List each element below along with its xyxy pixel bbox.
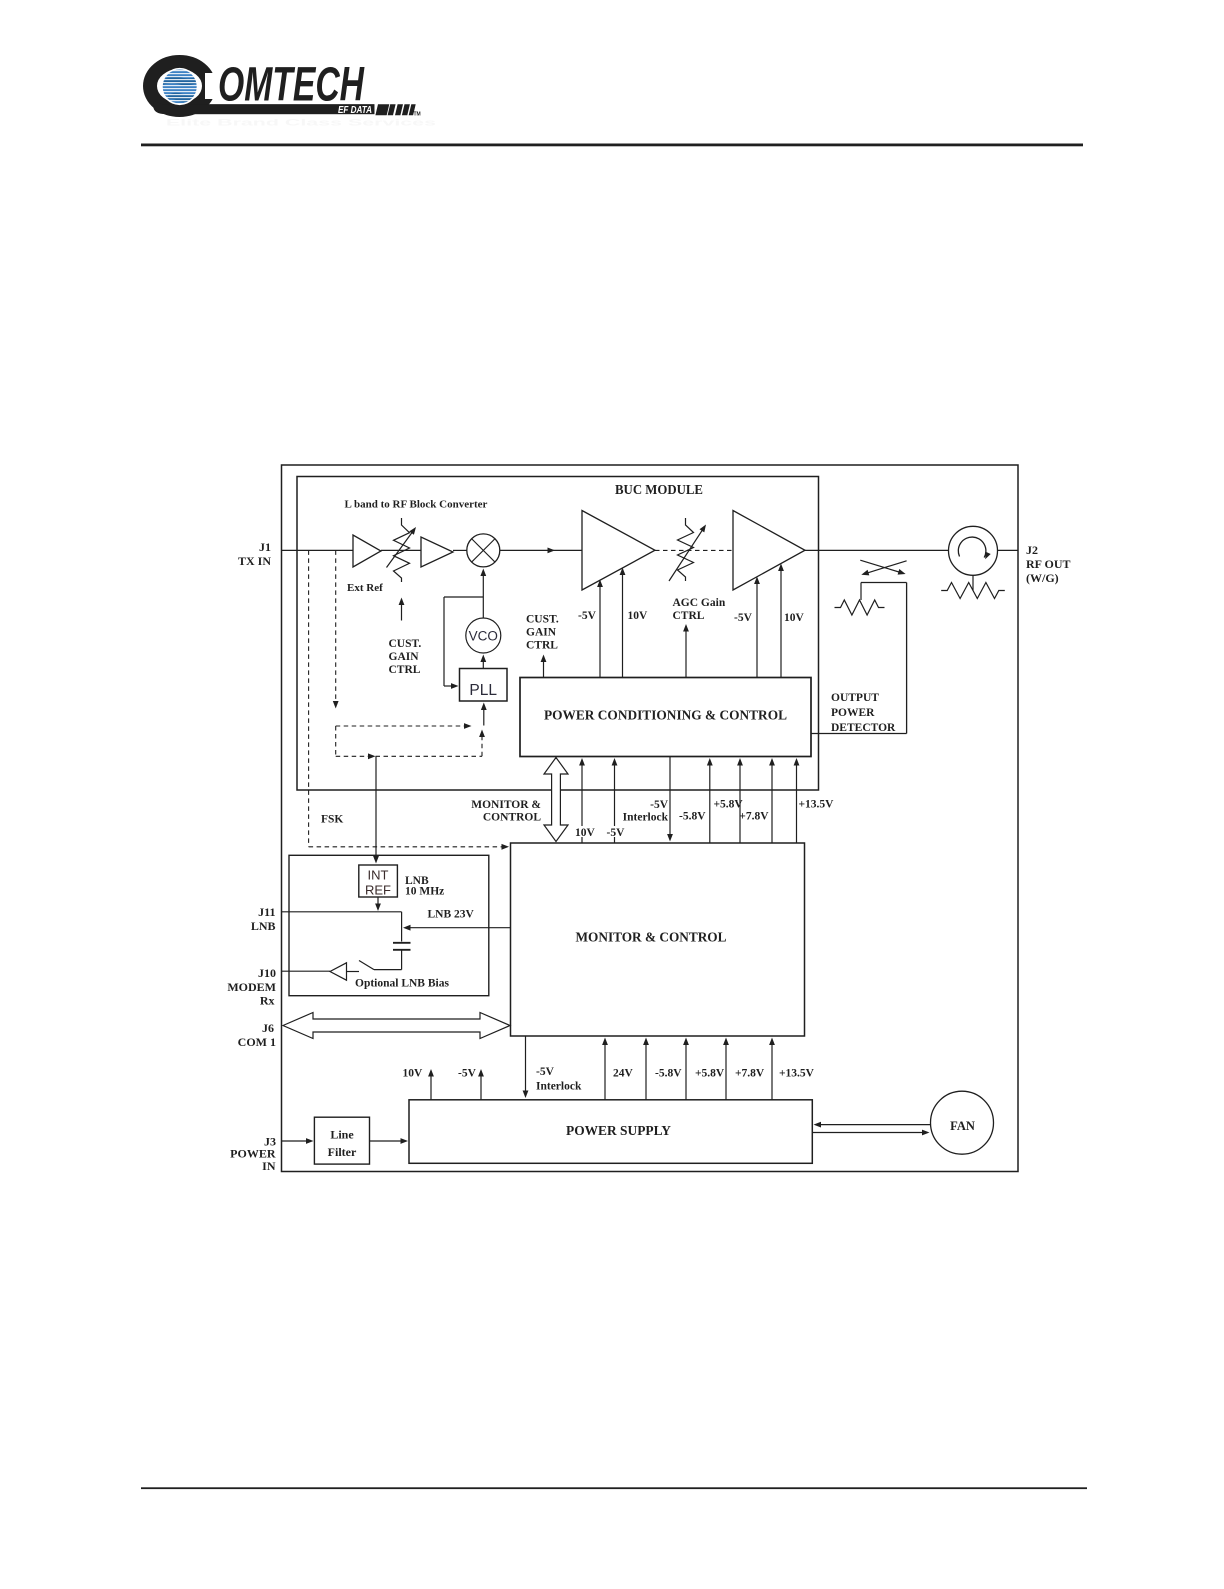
POWER SUPPLY box — [409, 1100, 812, 1164]
wire: mixer to amp A3 with arrow — [500, 549, 549, 551]
arrow: -5V to A4 — [756, 583, 758, 678]
svg-text:J6: J6 — [262, 1021, 274, 1035]
svg-text:LNB 23V: LNB 23V — [428, 909, 475, 921]
amplifier A4 — [733, 511, 805, 591]
-5V interlock arrow down — [669, 757, 671, 836]
wire: reference into PLL from below — [483, 709, 485, 726]
svg-text:-5V: -5V — [650, 799, 669, 811]
+13.5V — [771, 1044, 773, 1100]
svg-text:-5V: -5V — [536, 1066, 555, 1078]
svg-text:INT: INT — [368, 868, 389, 883]
svg-text:(W/G): (W/G) — [1026, 571, 1059, 585]
svg-text:Optional LNB Bias: Optional LNB Bias — [355, 978, 449, 990]
svg-text:Rx: Rx — [260, 994, 275, 1008]
svg-text:REF: REF — [365, 883, 391, 898]
VCO oscillator — [466, 618, 501, 653]
-5.8V arrow — [709, 764, 711, 843]
MONITOR & CONTROL box — [511, 843, 805, 1036]
svg-text:J10: J10 — [258, 966, 276, 980]
wire: VCO to mixer with arrow — [482, 575, 484, 619]
dashed path to PLL reference — [336, 725, 466, 727]
dashed FSK path from TX line to monitor&control — [308, 550, 310, 846]
wire: LNB 23V from M&C — [409, 927, 511, 929]
solid wire to INT REF — [375, 756, 377, 857]
svg-text:POWER SUPPLY: POWER SUPPLY — [566, 1123, 671, 1138]
outer chassis boundary — [282, 465, 1019, 1172]
buffer amp toward J10 — [330, 963, 347, 980]
output power detector outline — [861, 582, 907, 584]
svg-text:GAIN: GAIN — [526, 627, 557, 639]
arrow: 10V to A3 — [622, 574, 624, 678]
arrow: -5V to A3 — [599, 586, 601, 678]
svg-text:IN: IN — [262, 1159, 276, 1173]
POWER CONDITIONING & CONTROL box — [520, 678, 811, 757]
+5.8V arrow — [739, 764, 741, 843]
svg-text:L band to RF Block Converter: L band to RF Block Converter — [345, 499, 488, 511]
wire: A1 to A2 through attenuator — [381, 549, 421, 551]
svg-text:+7.8V: +7.8V — [735, 1068, 765, 1080]
svg-text:EF DATA: EF DATA — [338, 104, 372, 116]
svg-text:VCO: VCO — [469, 629, 498, 644]
svg-text:10V: 10V — [784, 612, 805, 624]
svg-text:-5V: -5V — [607, 827, 626, 839]
wire: line filter to PS — [370, 1140, 403, 1142]
svg-text:CONTROL: CONTROL — [483, 812, 541, 824]
-5V interlock into PS — [525, 1036, 527, 1092]
variable attenuator AT1 — [394, 518, 410, 582]
header rule — [141, 144, 1083, 147]
FAN circle — [931, 1091, 994, 1154]
+7.8V arrow — [771, 764, 773, 843]
svg-text:Filter: Filter — [328, 1145, 357, 1159]
svg-text:Elite Brand Class Services: Elite Brand Class Services — [166, 118, 436, 129]
svg-text:J11: J11 — [258, 905, 275, 919]
circulator CR1 — [949, 526, 998, 575]
svg-text:-5.8V: -5.8V — [679, 811, 706, 823]
svg-text:LNB: LNB — [251, 919, 276, 933]
hollow double arrow: J6 COM1 bus — [283, 1013, 510, 1039]
svg-text:CUST.: CUST. — [389, 638, 422, 650]
svg-text:+7.8V: +7.8V — [739, 811, 769, 823]
svg-text:PLL: PLL — [469, 682, 497, 699]
wire: A2 to mixer — [453, 549, 467, 551]
arrow: AGC gain ctrl out of PC&C — [685, 630, 687, 677]
svg-text:-5.8V: -5.8V — [655, 1068, 682, 1080]
wire: circulator to J2 RF OUT — [998, 549, 1019, 551]
mixer M1 — [467, 534, 500, 567]
svg-text:Ext Ref: Ext Ref — [347, 582, 383, 594]
svg-text:-5V: -5V — [578, 610, 597, 622]
svg-text:J1: J1 — [259, 540, 271, 554]
dashed wire: A3 to AGC attenuator to A4 — [655, 549, 733, 551]
amplifier A3 — [582, 511, 655, 591]
svg-text:-5V: -5V — [458, 1068, 477, 1080]
arrow: cust gain ctrl out of PC&C — [543, 661, 545, 678]
svg-text:COM 1: COM 1 — [238, 1035, 276, 1049]
svg-text:Interlock: Interlock — [536, 1081, 582, 1093]
Line Filter box — [314, 1117, 369, 1164]
svg-text:POWER CONDITIONING & CONTROL: POWER CONDITIONING & CONTROL — [544, 708, 787, 723]
svg-text:MODEM: MODEM — [227, 980, 276, 994]
arrow: INT REF to J11 line — [377, 897, 379, 905]
INT REF box — [359, 865, 398, 897]
svg-text:MONITOR & CONTROL: MONITOR & CONTROL — [576, 930, 727, 945]
wire: PLL to VCO arrow — [482, 661, 484, 669]
svg-text:POWER: POWER — [831, 707, 875, 719]
svg-text:BUC MODULE: BUC MODULE — [615, 482, 703, 497]
wire: J3 into line filter — [282, 1140, 308, 1142]
svg-text:+5.8V: +5.8V — [714, 799, 744, 811]
svg-text:10 MHz: 10 MHz — [405, 886, 444, 898]
svg-text:J2: J2 — [1026, 543, 1038, 557]
svg-text:AGC Gain: AGC Gain — [673, 597, 726, 609]
capacitor C1 — [393, 942, 411, 944]
-5.8V — [645, 1044, 647, 1100]
variable attenuator AT2 (AGC) — [678, 518, 694, 581]
svg-text:10V: 10V — [403, 1068, 424, 1080]
wire: J10 MODEM Rx — [282, 970, 331, 972]
svg-text:GAIN: GAIN — [389, 651, 420, 663]
amplifier A2 — [421, 537, 453, 567]
svg-text:10V: 10V — [575, 827, 596, 839]
svg-text:Interlock: Interlock — [623, 812, 669, 824]
svg-text:MONITOR &: MONITOR & — [471, 799, 541, 811]
LNB bias enclosure — [289, 855, 489, 995]
PLL box — [460, 669, 508, 702]
svg-text:OUTPUT: OUTPUT — [831, 692, 879, 704]
svg-text:TX IN: TX IN — [238, 554, 271, 568]
Comtech EF Data logo — [150, 59, 436, 129]
svg-text:+5.8V: +5.8V — [695, 1068, 725, 1080]
wires: PS to FAN — [820, 1124, 931, 1126]
10V arrow — [581, 764, 583, 843]
svg-text:Line: Line — [330, 1128, 354, 1142]
-5V from PS — [480, 1075, 482, 1100]
svg-text:CUST.: CUST. — [526, 614, 559, 626]
termination resistor under circulator — [972, 575, 974, 590]
+5.8V — [685, 1044, 687, 1100]
+13.5V arrow — [796, 764, 798, 843]
10V from PS — [430, 1075, 432, 1100]
svg-text:CTRL: CTRL — [389, 664, 421, 676]
detector resistor — [835, 600, 885, 615]
wire: J11 LNB line — [282, 911, 402, 913]
bias switch — [374, 969, 402, 971]
hollow double arrow: MONITOR & CONTROL bus — [544, 758, 568, 842]
svg-text:+13.5V: +13.5V — [779, 1068, 815, 1080]
svg-text:-5V: -5V — [734, 612, 753, 624]
svg-text:FSK: FSK — [321, 814, 343, 826]
svg-text:CTRL: CTRL — [673, 610, 705, 622]
svg-text:24V: 24V — [613, 1068, 634, 1080]
footer rule — [141, 1487, 1087, 1489]
svg-text:CTRL: CTRL — [526, 640, 558, 652]
wire: A4 to circulator — [805, 549, 949, 551]
24V — [604, 1044, 606, 1100]
labels for supply rails — [573, 826, 594, 837]
svg-text:+13.5V: +13.5V — [799, 799, 835, 811]
svg-text:FAN: FAN — [950, 1119, 975, 1133]
arrow: 10V to A4 — [780, 570, 782, 678]
+7.8V — [725, 1044, 727, 1100]
amplifier A1 — [353, 535, 381, 567]
CUST GAIN CTRL arrow for AT1 — [401, 604, 403, 621]
-5V arrow — [614, 764, 616, 843]
svg-text:10V: 10V — [628, 610, 649, 622]
wire: J1 TX IN into amp A1 — [282, 549, 354, 551]
dashed Ext Ref path down — [335, 550, 337, 702]
directional coupler crossed arrows — [860, 560, 900, 572]
feedback wire VCO line to PLL — [444, 596, 483, 598]
BUC MODULE enclosure — [297, 477, 819, 791]
svg-text:RF OUT: RF OUT — [1026, 557, 1071, 571]
svg-text:DETECTOR: DETECTOR — [831, 722, 896, 734]
